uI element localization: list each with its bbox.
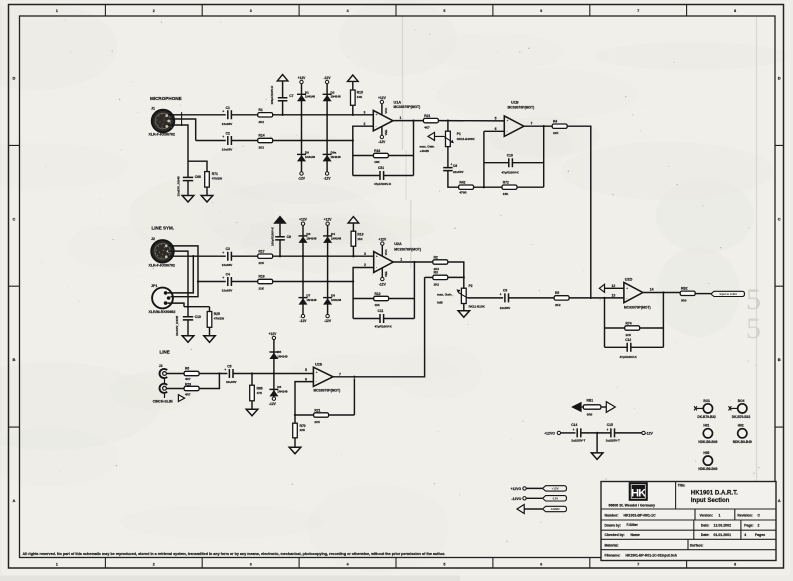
op-amp U1A MC33078P(MOT) [373, 100, 420, 130]
junction [300, 139, 302, 141]
wire R14 to inverting network [273, 140, 353, 142]
svg-text:P1: P1 [457, 132, 461, 136]
svg-text:D2: D2 [331, 90, 335, 94]
svg-text:MC33079P(MOT): MC33079P(MOT) [314, 388, 341, 392]
svg-text:D7: D7 [306, 294, 310, 298]
svg-text:+: + [607, 428, 609, 432]
wire +12VO to C14 [561, 432, 576, 434]
svg-text:R1: R1 [259, 108, 263, 112]
svg-text:0dB: 0dB [437, 300, 444, 304]
op-amp U2D MC33079P(MOT) [624, 278, 651, 310]
svg-text:CINCH-SLIM: CINCH-SLIM [153, 399, 173, 403]
junction [218, 372, 220, 374]
svg-text:22u50V: 22u50V [500, 306, 511, 310]
resistor R6 [184, 367, 199, 381]
svg-text:6: 6 [495, 127, 497, 131]
wire [384, 318, 415, 320]
resistor R2 [433, 255, 448, 271]
wire from U2b output up to R3 [354, 277, 424, 376]
svg-text:1N4148: 1N4148 [306, 298, 317, 302]
wire U2A inverting node [353, 268, 374, 319]
svg-text:max. Gain: max. Gain [420, 145, 435, 149]
svg-text:7: 7 [531, 121, 533, 125]
junction [463, 276, 465, 278]
wire [282, 82, 284, 98]
svg-text:R17: R17 [259, 249, 265, 253]
svg-text:10K: 10K [374, 160, 380, 164]
svg-text:2: 2 [153, 562, 155, 566]
svg-text:22K: 22K [259, 261, 265, 265]
svg-text:RB2: RB2 [681, 287, 688, 291]
wire node to P1 [447, 121, 449, 132]
svg-text:MC33078P(MOT): MC33078P(MOT) [394, 105, 421, 109]
svg-text:-12V: -12V [378, 140, 386, 144]
wire feedback left leg U1B [483, 131, 485, 187]
wire feedback right leg U2D [662, 293, 664, 348]
capacitor C5 [224, 365, 236, 384]
wire [279, 224, 281, 237]
svg-text:+: + [222, 109, 224, 113]
junction [603, 297, 605, 299]
svg-text:Page:: Page: [744, 524, 753, 528]
svg-text:1: 1 [400, 257, 402, 261]
connector J3 CINCH-SLIM [153, 364, 185, 403]
svg-text:47K: 47K [257, 391, 263, 395]
svg-text:+: + [222, 135, 224, 139]
svg-text:-12V: -12V [324, 319, 332, 323]
svg-text:D9: D9 [305, 150, 309, 154]
svg-text:J3: J3 [159, 364, 163, 368]
mounting hole BO1 [694, 399, 716, 419]
svg-text:1N4148: 1N4148 [331, 155, 342, 159]
wire C15 to -12V [615, 432, 642, 434]
wire [279, 240, 281, 256]
capacitor C4 [222, 273, 233, 293]
svg-text:R15: R15 [357, 90, 363, 94]
svg-text:R16: R16 [374, 149, 380, 153]
net -12V terminal [300, 172, 303, 175]
svg-text:D6: D6 [277, 385, 281, 389]
wire R70 to ground [294, 438, 296, 448]
junction [326, 255, 328, 257]
net -12V terminal [642, 431, 645, 434]
svg-text:AGND: AGND [551, 507, 561, 511]
wire U2b inverting node [295, 382, 313, 415]
resistor R14 [258, 134, 273, 150]
svg-text:HK1901 D.A.R.T.: HK1901 D.A.R.T. [691, 490, 738, 497]
mounting hole H02 [733, 424, 752, 444]
wire feedback left leg U2D [604, 298, 606, 347]
wire RB2 to output flag [695, 293, 711, 295]
wire U1A inverting node [353, 126, 374, 175]
wire [381, 245, 383, 256]
diode D4 1N4148 [323, 232, 341, 243]
diode D6 1N4148 [269, 385, 287, 396]
svg-text:10u63V: 10u63V [222, 122, 233, 126]
svg-text:C66: C66 [195, 175, 201, 179]
svg-text:D5: D5 [277, 350, 281, 354]
svg-text:R74: R74 [626, 321, 632, 325]
svg-text:2: 2 [758, 524, 760, 528]
svg-text:6: 6 [305, 377, 307, 381]
wire J2 pin1 shield bus [168, 251, 188, 307]
mounting hole H01 [698, 424, 717, 444]
svg-text:A: A [778, 498, 781, 503]
svg-text:1N4148: 1N4148 [306, 236, 317, 240]
wire U1A output to R21 [393, 120, 424, 122]
capacitor C16 [502, 153, 520, 174]
svg-text:100pF/100V-K: 100pF/100V-K [270, 85, 274, 105]
connector JP1 XLR/M-RX90662 [149, 284, 176, 314]
wire to R25 [209, 307, 211, 312]
wire R42 to R72 [474, 186, 502, 188]
svg-text:NDK-B0-B40: NDK-B0-B40 [698, 440, 717, 444]
svg-text:Material:: Material: [605, 543, 619, 547]
wire [353, 155, 374, 157]
svg-text:+12V: +12V [324, 218, 333, 222]
svg-text:1N4148: 1N4148 [277, 390, 288, 394]
svg-text:10u63V: 10u63V [222, 263, 233, 267]
resistor R72 [502, 181, 517, 197]
resistor R25 [207, 312, 224, 328]
title block fields [605, 513, 766, 557]
resistor R18 [258, 275, 273, 291]
wire U2b output [333, 376, 354, 378]
svg-text:+12V: +12V [269, 332, 278, 336]
wire U2D output [643, 292, 680, 294]
svg-text:C5: C5 [227, 365, 231, 369]
svg-text:NDK-B0-B40: NDK-B0-B40 [698, 467, 717, 471]
net +12V terminal [326, 222, 329, 225]
svg-text:1N4148: 1N4148 [331, 298, 342, 302]
svg-text:10n63V_R3/45: 10n63V_R3/45 [176, 176, 180, 197]
capacitor C12 [620, 338, 638, 359]
svg-text:5: 5 [305, 368, 307, 372]
svg-text:H02: H02 [738, 424, 744, 428]
svg-text:R29: R29 [185, 383, 191, 387]
svg-text:J2: J2 [151, 237, 155, 241]
svg-text:+: + [507, 119, 509, 123]
svg-text:P2: P2 [469, 284, 473, 288]
svg-text:2: 2 [364, 122, 366, 126]
potentiometer P1 RK11-B100K [434, 131, 476, 146]
junction [294, 414, 296, 416]
wire J3 to R29 [167, 388, 185, 390]
svg-text:C3: C3 [226, 247, 230, 251]
ground [182, 196, 194, 203]
wire feedback right leg U2A [413, 262, 415, 319]
op-amp U1B MC33078P(MOT) [504, 101, 534, 137]
svg-text:+12V: +12V [378, 238, 387, 242]
svg-text:3: 3 [364, 252, 366, 256]
diode D8 1N4148 [323, 294, 341, 305]
wire feedback right leg U1B [543, 126, 545, 187]
svg-text:R71: R71 [212, 172, 218, 176]
junction [412, 119, 414, 121]
svg-text:8: 8 [734, 9, 736, 13]
wiper flag arrow [428, 132, 435, 140]
resistor R29 [184, 383, 199, 397]
wire JP1 pin bus [168, 256, 194, 293]
svg-text:H05: H05 [703, 451, 709, 455]
svg-text:6: 6 [540, 9, 542, 13]
svg-text:RK11-B100K: RK11-B100K [457, 137, 476, 141]
junction [279, 255, 281, 257]
svg-text:6: 6 [540, 562, 542, 566]
junction [302, 280, 304, 282]
svg-text:47pF/100V-K: 47pF/100V-K [620, 355, 638, 359]
svg-text:D3: D3 [306, 232, 310, 236]
J1 pin bracket [181, 112, 183, 126]
svg-text:10u63V: 10u63V [222, 148, 233, 152]
svg-text:R6: R6 [185, 367, 189, 371]
net -12V terminal [326, 314, 329, 317]
capacitor C6 [443, 163, 463, 174]
svg-text:22K: 22K [259, 287, 265, 291]
svg-text:C10: C10 [195, 315, 201, 319]
svg-text:Revision:: Revision: [737, 513, 752, 517]
svg-text:C: C [13, 216, 16, 221]
junction [447, 119, 449, 121]
svg-text:1: 1 [56, 9, 58, 13]
svg-text:Input Section: Input Section [691, 497, 730, 504]
wire R5 to U2D inverting input [569, 297, 624, 299]
svg-text:DK-B70-B32: DK-B70-B32 [697, 415, 716, 419]
svg-text:D8: D8 [331, 294, 335, 298]
svg-text:+: + [376, 113, 378, 117]
svg-text:VCC: VCC [384, 108, 388, 114]
capacitor C8 [271, 224, 291, 257]
junction [192, 255, 194, 257]
junction [302, 255, 304, 257]
wire to U1B inverting input [484, 130, 504, 132]
U1A VCC +12V [378, 96, 388, 115]
wire R1 to U1A noninverting input [273, 114, 374, 116]
svg-text:4: 4 [347, 9, 349, 13]
svg-text:U2D: U2D [625, 278, 633, 282]
svg-text:+: + [500, 293, 502, 297]
net -12V terminal [325, 172, 328, 175]
wire [384, 175, 414, 177]
wire bus to C4 [198, 281, 226, 283]
resistor R21 [423, 114, 438, 130]
junction [251, 372, 253, 374]
svg-text:-12V: -12V [379, 283, 387, 287]
svg-text:U1A: U1A [394, 100, 402, 104]
diode D9 1N4148 [297, 150, 315, 161]
HK logo [609, 482, 656, 507]
svg-text:R25: R25 [214, 312, 220, 316]
svg-text:D1: D1 [305, 90, 309, 94]
title block [601, 482, 776, 561]
wire C10 to ground [187, 320, 189, 336]
resistor R42 [459, 181, 474, 195]
wire [329, 414, 355, 416]
svg-text:Title:: Title: [678, 483, 686, 487]
svg-text:1N4148: 1N4148 [331, 95, 342, 99]
svg-text:1N4148: 1N4148 [305, 155, 316, 159]
svg-text:1: 1 [719, 513, 721, 517]
svg-text:-12V: -12V [298, 177, 306, 181]
svg-text:C2: C2 [226, 132, 230, 136]
wire [352, 224, 354, 232]
svg-text:+12VO: +12VO [544, 431, 555, 435]
svg-text:LINE: LINE [160, 350, 170, 355]
resistor R3 [433, 271, 448, 287]
wire [353, 175, 380, 177]
svg-text:R14: R14 [259, 134, 265, 138]
capacitor C15 [606, 423, 620, 442]
svg-text:C12: C12 [625, 338, 631, 342]
svg-text:Pages: Pages [755, 533, 765, 537]
wire clamp column D4/D8 [327, 225, 329, 314]
resistor R21 [314, 408, 329, 424]
wire [353, 318, 380, 320]
connector J2 XLR-F-RX90762 [149, 237, 175, 268]
svg-text:47pF/100V-K: 47pF/100V-K [502, 170, 520, 174]
svg-text:Date:: Date: [701, 533, 709, 537]
wire feedback leg U2b [353, 378, 355, 415]
svg-text:100pF/100V-K: 100pF/100V-K [271, 226, 275, 246]
svg-text:C14: C14 [571, 423, 577, 427]
svg-text:2K2: 2K2 [259, 120, 265, 124]
svg-text:MC33078P(MOT): MC33078P(MOT) [508, 105, 535, 109]
svg-text:A: A [13, 498, 16, 503]
resistor R71 [205, 172, 223, 188]
wire C14 to C15 [581, 432, 611, 434]
junction [352, 114, 354, 116]
svg-text:10u63V: 10u63V [226, 380, 237, 384]
wire J1 pin1 shield down [168, 125, 188, 177]
svg-text:All rights reserved. No part o: All rights reserved. No part of this sch… [23, 552, 446, 556]
wire to C5 [199, 373, 227, 375]
svg-text:XLR/M-RX90662: XLR/M-RX90662 [149, 310, 176, 314]
U2A VEE -12V [379, 268, 388, 287]
svg-text:12.03.2002: 12.03.2002 [714, 524, 732, 528]
AGND flag at U2D pin 12 [599, 284, 604, 292]
diode D9a 1N4148 [323, 150, 341, 161]
junction [352, 139, 354, 141]
power arrow +12V above R19 [348, 217, 359, 223]
svg-text:DK-B70-B32: DK-B70-B32 [732, 415, 751, 419]
svg-text:0R0: 0R0 [681, 298, 687, 302]
svg-text:Filename:: Filename: [605, 553, 621, 557]
svg-text:MICROPHONE: MICROPHONE [150, 96, 182, 101]
wire [582, 406, 584, 408]
svg-text:RK11-B10K: RK11-B10K [469, 305, 486, 309]
svg-text:+40dB: +40dB [420, 149, 430, 153]
svg-text:2: 2 [364, 263, 366, 267]
title text [678, 483, 738, 504]
op-amp U2b MC33079P(MOT) [313, 362, 340, 392]
op-amp U2A MC33078P(MOT) [374, 242, 421, 272]
svg-text:+: + [316, 371, 318, 375]
svg-text:470/1W: 470/1W [214, 317, 225, 321]
svg-text:R72: R72 [503, 181, 509, 185]
svg-text:R18: R18 [259, 275, 265, 279]
wire feedback right leg [413, 121, 415, 176]
wire R66 to ground [251, 401, 253, 410]
svg-text:H01: H01 [703, 424, 709, 428]
svg-text:1: 1 [56, 562, 58, 566]
svg-text:5: 5 [495, 117, 497, 121]
wire [389, 298, 415, 300]
svg-text:C4: C4 [226, 273, 230, 277]
svg-text:22u50V: 22u50V [453, 170, 464, 174]
wire [425, 276, 433, 278]
wire P2 wiper to C9 [467, 297, 503, 299]
resistor R66 [250, 385, 263, 401]
svg-text:NDK-B0-B40: NDK-B0-B40 [733, 440, 752, 444]
svg-text:MC33079P(MOT): MC33079P(MOT) [624, 306, 651, 310]
junction [273, 372, 275, 374]
junction [187, 306, 189, 308]
svg-text:D9a: D9a [331, 150, 337, 154]
svg-text:R12: R12 [375, 292, 381, 296]
svg-text:22K: 22K [314, 420, 320, 424]
wire [484, 162, 509, 164]
svg-text:Date:: Date: [701, 524, 709, 528]
svg-text:2u2/25V-T: 2u2/25V-T [606, 438, 620, 442]
capacitor C14 [571, 423, 585, 442]
svg-text:8: 8 [734, 562, 736, 566]
net -12V terminal [272, 397, 275, 400]
svg-text:VEE: VEE [384, 271, 388, 277]
wire C3 to R17 [231, 255, 257, 257]
svg-text:R19: R19 [357, 232, 363, 236]
svg-text:11K: 11K [357, 237, 363, 241]
svg-text:Version:: Version: [700, 513, 713, 517]
wire P2 to ground [463, 304, 465, 311]
svg-text:Checked by:: Checked by: [605, 533, 625, 537]
wire P1 to C6 [447, 147, 449, 168]
svg-text:14: 14 [650, 288, 654, 292]
svg-text:4R7: 4R7 [185, 392, 191, 396]
svg-text:-12V: -12V [324, 76, 332, 80]
svg-text:4R7: 4R7 [185, 377, 191, 381]
svg-text:5: 5 [443, 562, 445, 566]
svg-text:2K2: 2K2 [434, 282, 440, 286]
wire R71 to ground [206, 187, 208, 195]
svg-text:3: 3 [250, 9, 252, 13]
resistor R15 [351, 90, 364, 105]
junction [281, 114, 283, 116]
svg-text:R4: R4 [553, 120, 557, 124]
svg-text:F.Sitter: F.Sitter [627, 523, 639, 527]
wire J3 to R6 [167, 373, 185, 375]
svg-text:1N4148: 1N4148 [305, 95, 316, 99]
potentiometer P2 RK11-B10K [456, 284, 485, 309]
junction [326, 114, 328, 116]
svg-text:R5: R5 [555, 291, 559, 295]
svg-text:R42: R42 [459, 181, 465, 185]
svg-text:R2: R2 [434, 255, 438, 259]
svg-text:2K2: 2K2 [555, 303, 561, 307]
junction [413, 261, 415, 263]
wire clamp column D5/D6 [273, 340, 275, 397]
resistor R70 [293, 423, 306, 438]
svg-text:C51: C51 [378, 166, 384, 170]
svg-text:BO4: BO4 [738, 399, 745, 403]
svg-text:10K: 10K [357, 95, 363, 99]
capacitor C51 [374, 166, 392, 186]
svg-text:Surface:: Surface: [690, 543, 704, 547]
svg-text:C15: C15 [607, 423, 613, 427]
ground [182, 336, 194, 343]
junction [326, 280, 328, 282]
svg-text:7: 7 [339, 372, 341, 376]
svg-text:U2A: U2A [394, 242, 402, 246]
